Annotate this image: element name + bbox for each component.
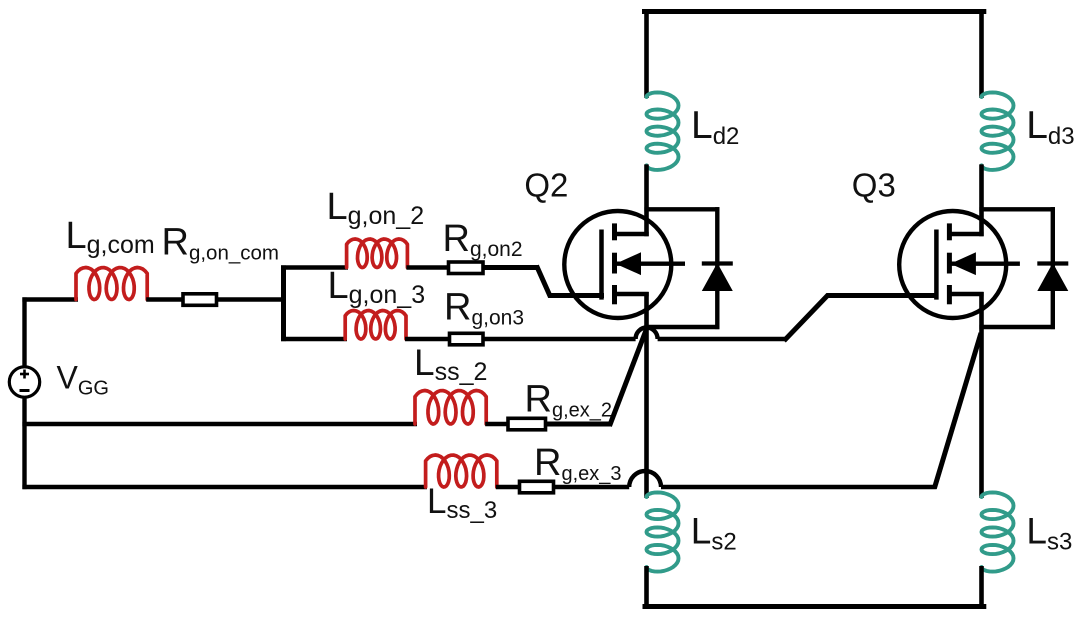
wire splitter vertical: [281, 265, 286, 341]
wire V_GG minus down: [22, 397, 26, 489]
svg-text:Rg,on3: Rg,on3: [444, 287, 524, 330]
transistor Q2 drain link: [615, 232, 649, 236]
wire Q3 diode bottom to source: [979, 325, 1055, 329]
inductor L_g,com: [76, 268, 147, 300]
body diode D2 cathode bar: [702, 261, 733, 265]
svg-text:Lg,on_2: Lg,on_2: [327, 186, 425, 230]
wire L_g,com to R_g,on_com: [146, 297, 184, 301]
transistor Q3 channel dash middle: [947, 253, 952, 274]
body diode D3 cathode bar: [1037, 261, 1068, 265]
wire R_g,on_com to splitter: [217, 297, 287, 301]
inductor L_g,on_2: [347, 239, 408, 268]
wire V_GG to L_ss_2: [22, 422, 417, 426]
transistor Q3 channel dash bottom: [947, 285, 952, 304]
inductor L_d2: [647, 92, 679, 169]
wire hop to Q3 diagonal: [658, 337, 786, 341]
svg-text:Q3: Q3: [852, 167, 896, 204]
wire Q2 source down to L_s2: [644, 292, 649, 498]
wire Q3 source down to L_s3: [979, 292, 984, 498]
body diode D3 triangle: [1039, 265, 1067, 290]
wire Q2 diode vertical: [715, 207, 719, 329]
wire diagonal to Q3 kelvin source: [934, 333, 981, 489]
transistor Q3 source link: [949, 292, 983, 296]
svg-text:Ls3: Ls3: [1026, 511, 1072, 556]
transistor Q2 gate bar: [599, 230, 604, 300]
wire L_s3 to bottom rail: [979, 566, 984, 609]
wire L_g,on_2 to R_g,on2: [406, 265, 450, 269]
svg-text:Rg,on_com: Rg,on_com: [162, 222, 279, 265]
wire Q2 drain to diode branch: [644, 207, 719, 211]
svg-text:Lss_2: Lss_2: [414, 342, 487, 386]
wire hop over Q2 source: [636, 328, 658, 340]
wire top rail to L_d2: [644, 9, 649, 98]
wire top rail to L_d3: [979, 9, 984, 98]
wire splitter to L_g,on_2: [281, 265, 348, 269]
transistor Q3 channel dash top: [947, 223, 952, 240]
inductor L_s3: [982, 492, 1014, 571]
body diode D2 triangle: [704, 265, 732, 290]
transistor Q2 channel dash bottom: [612, 285, 617, 304]
wire diagonal to Q2 gate: [537, 266, 605, 296]
wire top rail: [642, 9, 986, 14]
wire Q2 diode bottom to source: [644, 325, 719, 329]
voltage source V_GG: [9, 367, 39, 397]
wire R_g,ex_2 right: [546, 422, 612, 427]
wire bottom rail: [643, 604, 987, 609]
wire L_d2 to Q2 drain: [644, 164, 649, 236]
svg-text:Rg,ex_3: Rg,ex_3: [534, 442, 622, 485]
transistor Q2 channel dash top: [612, 223, 617, 240]
wire R_g,on3 to hop: [483, 337, 636, 341]
transistor Q2 body line: [617, 262, 686, 266]
transistor Q3 body circle: [899, 211, 1006, 318]
wire L_s2 to bottom rail: [644, 566, 649, 609]
svg-text:Ld2: Ld2: [691, 104, 739, 150]
wire L_g,on_3 to R_g,on3: [405, 337, 451, 341]
wire L_ss_2 to R_g,ex_2: [485, 422, 509, 426]
wire L_d3 to Q3 drain: [979, 164, 984, 236]
svg-text:Q2: Q2: [524, 167, 568, 204]
inductor L_ss_3: [426, 455, 497, 487]
wire Q3 drain to diode branch: [979, 207, 1055, 211]
wire L_ss_3 to R_g,ex_3: [496, 485, 521, 489]
wire diagonal to Q2 kelvin source: [610, 329, 647, 426]
resistor R_g,on_com: [183, 294, 217, 306]
transistor Q2 source link: [615, 292, 649, 296]
wire splitter to L_g,on_3: [281, 337, 347, 341]
transistor Q2 body circle: [564, 211, 671, 318]
wire Q3 diode vertical: [1051, 207, 1055, 329]
svg-text:Ld3: Ld3: [1026, 104, 1074, 150]
svg-text:Ls2: Ls2: [691, 511, 737, 556]
svg-text:VGG: VGG: [57, 360, 109, 400]
transistor Q3 gate bar: [934, 230, 939, 300]
wire hop over Q2 source leg: [629, 471, 661, 487]
resistor R_g,ex_3: [520, 481, 554, 493]
transistor Q3 body line: [951, 262, 1020, 266]
transistor Q3 drain link: [949, 232, 983, 236]
wire V_GG to L_ss_3: [22, 485, 427, 489]
svg-text:Rg,on2: Rg,on2: [443, 218, 523, 261]
wire top-left horizontal to L_g,com: [22, 297, 78, 301]
wire hop to Q3 diagonal: [661, 485, 936, 489]
svg-text:Rg,ex_2: Rg,ex_2: [525, 379, 613, 422]
svg-text:Lg,com: Lg,com: [66, 215, 155, 259]
inductor L_g,on_3: [345, 311, 406, 340]
resistor R_g,on3: [450, 333, 484, 345]
wire V_GG plus up: [22, 297, 26, 366]
wire diagonal to Q3 gate: [784, 296, 939, 341]
resistor R_g,on2: [449, 262, 484, 274]
resistor R_g,ex_2: [508, 418, 546, 430]
wire R_g,on2 right: [483, 265, 539, 270]
inductor L_ss_2: [415, 391, 486, 425]
wire R_g,ex_3 to hop: [554, 485, 630, 489]
transistor Q2 channel dash middle: [612, 253, 617, 274]
svg-text:Lg,on_3: Lg,on_3: [328, 265, 426, 309]
inductor L_s2: [647, 492, 679, 571]
transistor Q2 arrow: [616, 252, 642, 275]
inductor L_d3: [982, 92, 1014, 169]
transistor Q3 arrow: [950, 252, 976, 275]
